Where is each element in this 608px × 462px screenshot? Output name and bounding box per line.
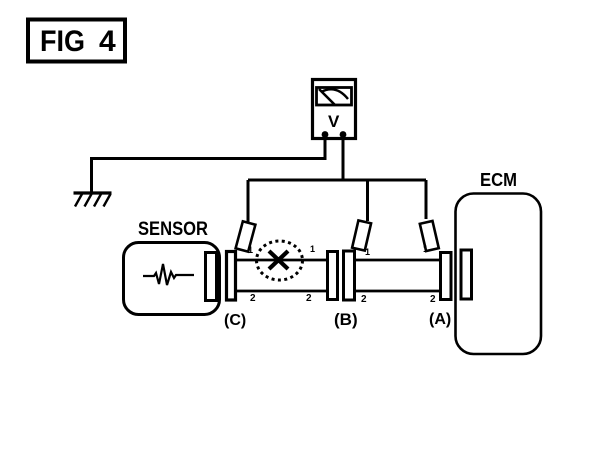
ECM box: [456, 194, 542, 355]
connector A right bar: [461, 250, 472, 299]
wire bus to probe at A: [425, 180, 428, 219]
connector B right bar: [344, 251, 355, 300]
open circuit X symbol: [257, 241, 303, 280]
svg-text:1: 1: [248, 245, 253, 255]
svg-text:1: 1: [365, 247, 370, 257]
connector C bar: [227, 252, 236, 301]
svg-text:(A): (A): [429, 311, 451, 328]
connector B left bar: [328, 252, 338, 300]
figure label box FIG 4: [28, 20, 125, 62]
svg-text:2: 2: [361, 294, 367, 305]
svg-text:1: 1: [423, 244, 428, 254]
connector A left bar: [441, 253, 452, 300]
wire C to B pin 2: [237, 290, 326, 293]
test probe at C: [236, 221, 256, 251]
wire bus to probe at C: [247, 180, 250, 223]
sensor waveform: [143, 264, 194, 285]
wire B to A pin 1: [356, 259, 439, 262]
wire bus to probe at B: [366, 180, 369, 221]
svg-text:ECM: ECM: [480, 170, 517, 190]
svg-text:V: V: [328, 112, 340, 131]
sensor box: [124, 243, 220, 315]
svg-text:(C): (C): [224, 312, 246, 329]
test probe at A: [420, 221, 439, 251]
bus wire to probes: [248, 179, 426, 182]
wire voltmeter right terminal to bus: [342, 136, 345, 180]
svg-text:FIG: FIG: [40, 25, 85, 58]
svg-text:(B): (B): [334, 310, 358, 329]
svg-text:4: 4: [99, 25, 116, 58]
connector bar inside sensor: [206, 253, 217, 301]
svg-text:2: 2: [430, 294, 436, 305]
ground symbol: [74, 193, 112, 207]
svg-text:SENSOR: SENSOR: [138, 219, 208, 240]
wire B to A pin 2: [356, 290, 439, 293]
svg-text:2: 2: [250, 293, 256, 304]
wire voltmeter left terminal to ground: [92, 136, 326, 192]
svg-text:2: 2: [306, 293, 312, 304]
wire C to B pin 1: [237, 259, 326, 262]
voltmeter V1: [313, 80, 356, 139]
test probe at B: [352, 220, 371, 250]
svg-text:1: 1: [310, 244, 315, 254]
